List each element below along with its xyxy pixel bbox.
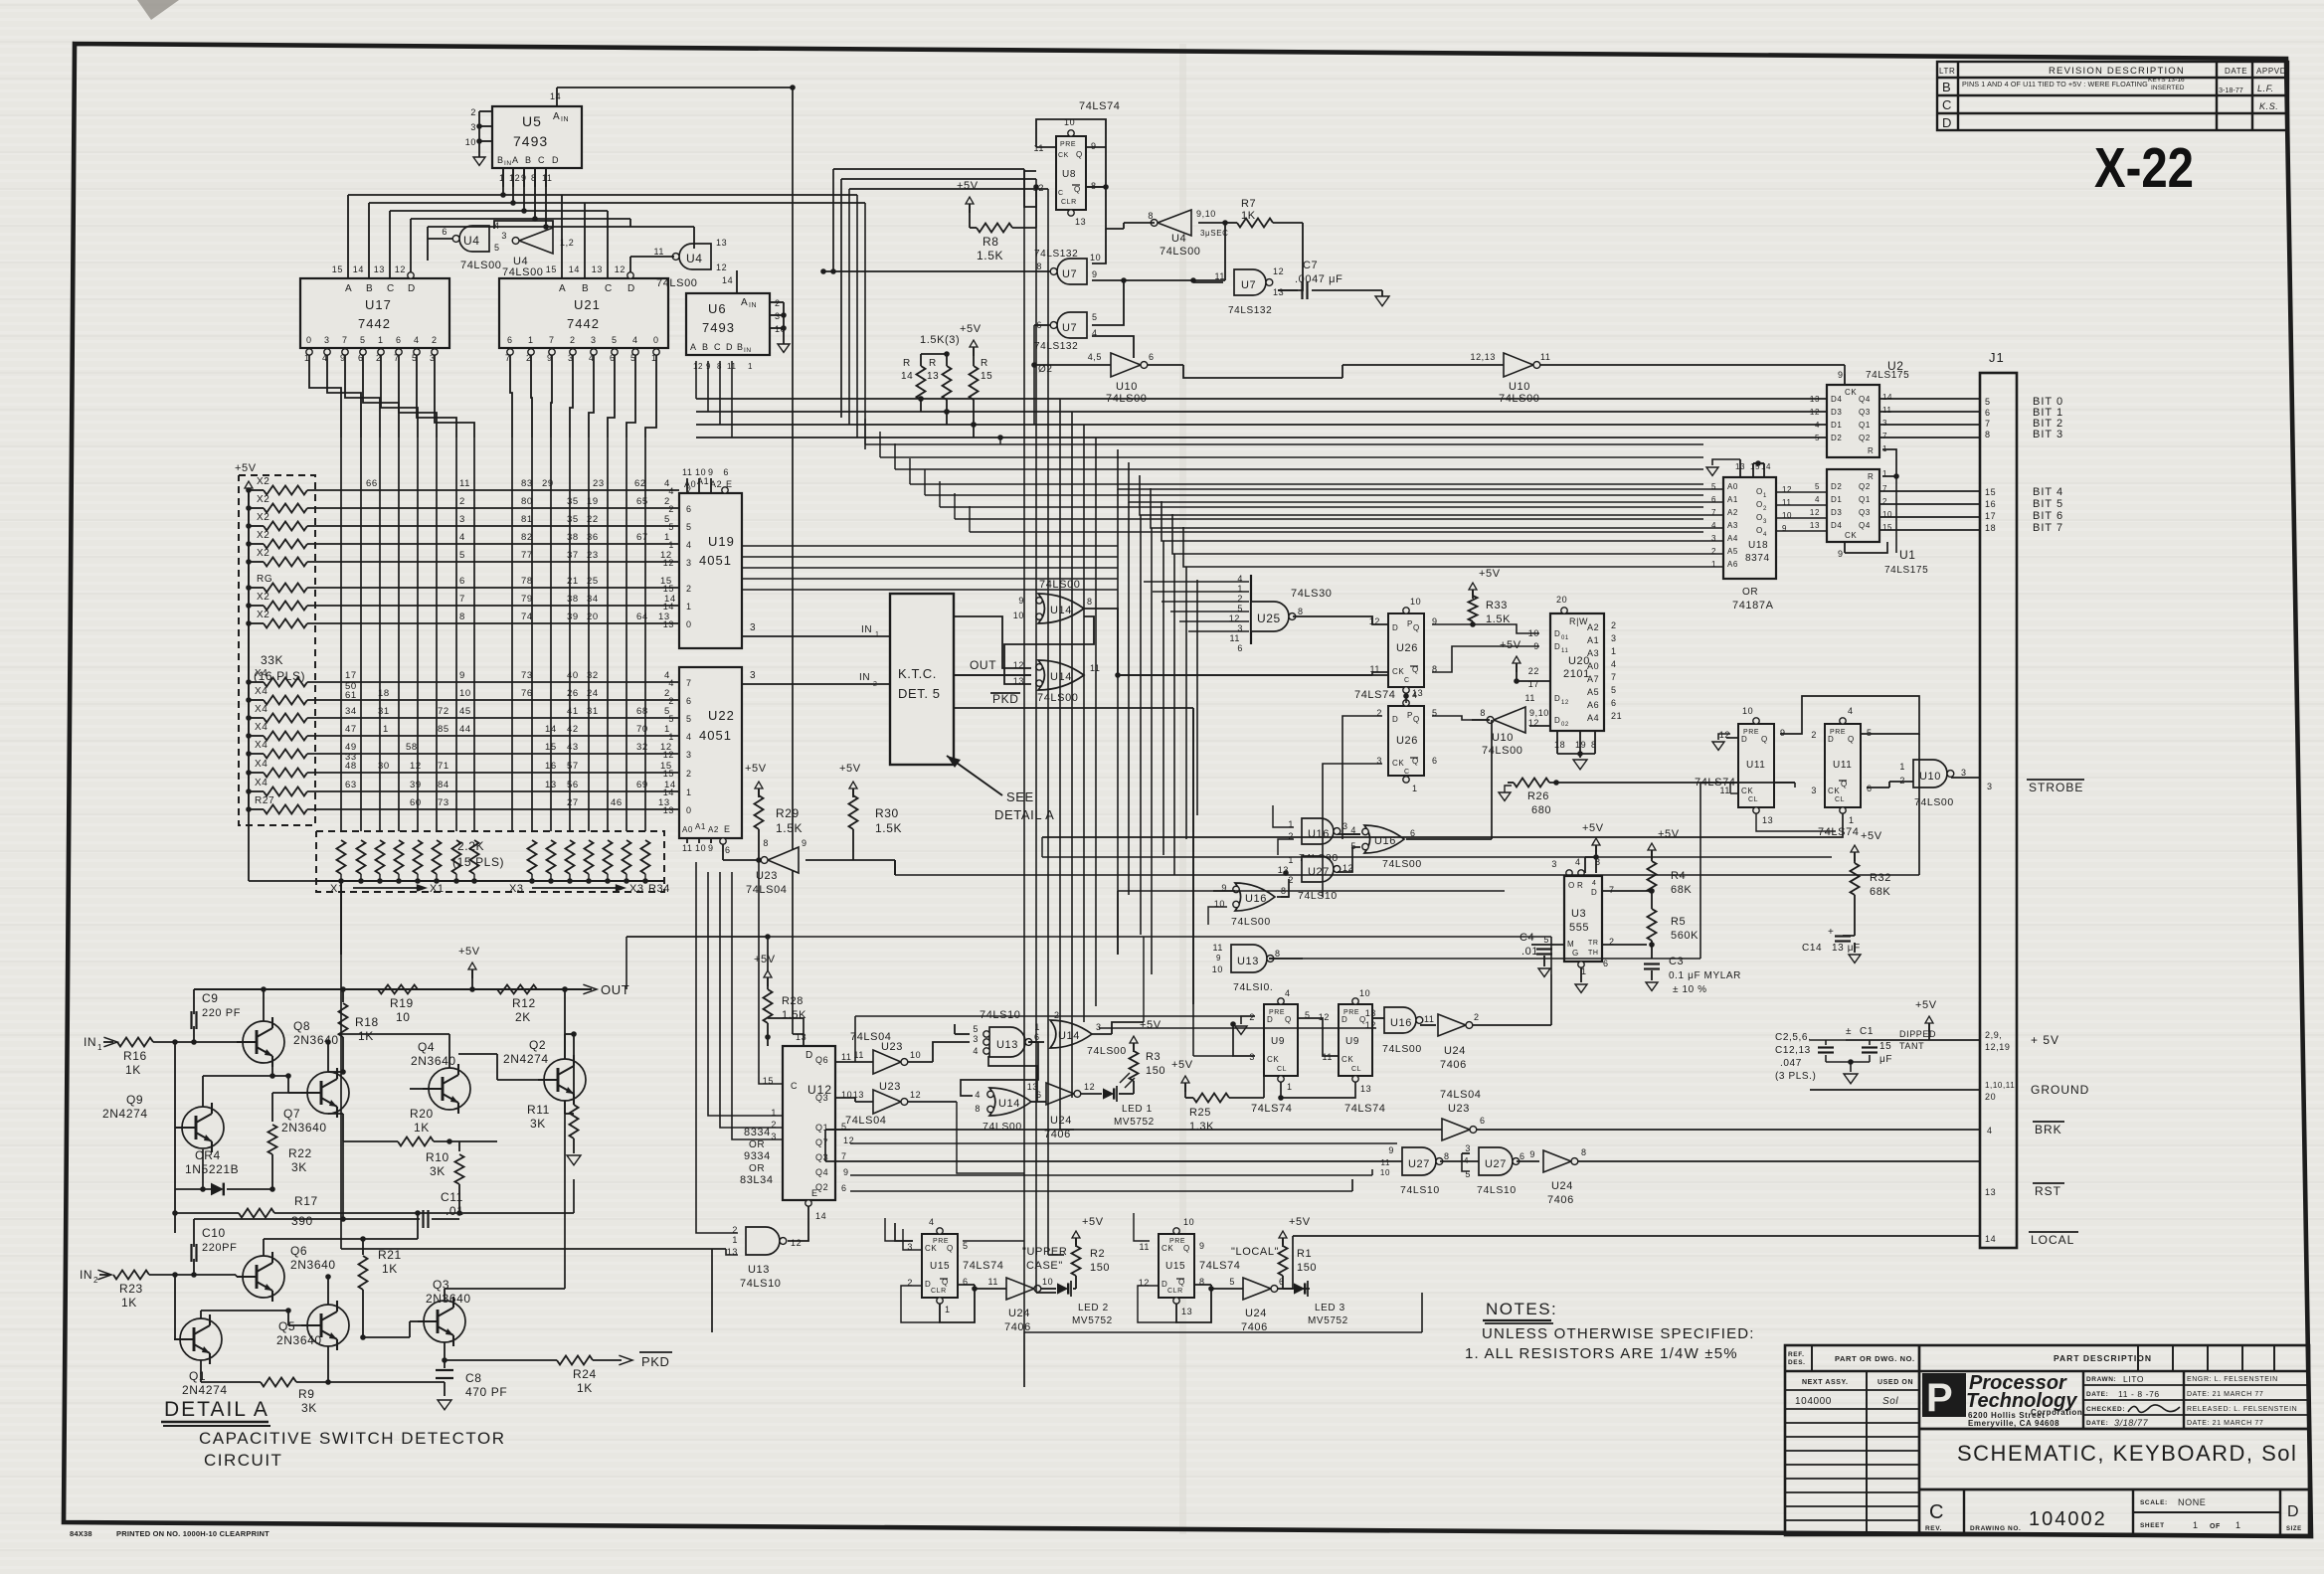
svg-text:3: 3 <box>1811 786 1817 795</box>
svg-text:A6: A6 <box>1727 560 1738 569</box>
svg-text:11: 11 <box>1882 406 1892 415</box>
svg-text:150: 150 <box>1297 1262 1317 1274</box>
svg-text:74LS00: 74LS00 <box>1382 1043 1422 1055</box>
svg-text:15: 15 <box>545 742 557 753</box>
wire Q2 emitter to R11 <box>565 1101 574 1114</box>
svg-text:DRAWING NO.: DRAWING NO. <box>1970 1525 2021 1532</box>
svg-text:22: 22 <box>1528 666 1539 676</box>
svg-text:74LS175: 74LS175 <box>1866 370 1909 381</box>
svg-text:D1: D1 <box>1831 421 1842 430</box>
svg-text:13: 13 <box>796 1032 806 1042</box>
wire U13c net <box>1269 783 1795 959</box>
svg-text:U24: U24 <box>1444 1045 1466 1057</box>
svg-text:35: 35 <box>567 514 579 525</box>
svg-text:62: 62 <box>634 478 646 489</box>
svg-text:14: 14 <box>815 1211 826 1221</box>
svg-text:DET. 5: DET. 5 <box>898 686 941 701</box>
wire U9 U16 feed lines <box>855 1016 1376 1241</box>
svg-text:1: 1 <box>97 1043 102 1052</box>
svg-text:9: 9 <box>708 467 714 477</box>
transistor Q6 2N3640 <box>236 1239 418 1302</box>
svg-text:2: 2 <box>93 1276 98 1285</box>
svg-text:3K: 3K <box>430 1164 446 1178</box>
svg-text:Q2: Q2 <box>529 1038 546 1052</box>
svg-text:IN: IN <box>861 624 872 635</box>
svg-text:+5V: +5V <box>745 763 767 775</box>
svg-text:4: 4 <box>686 732 692 742</box>
svg-text:6: 6 <box>1149 352 1155 362</box>
label 74LS74 <box>1079 100 1121 112</box>
ground <box>1706 467 1718 475</box>
svg-text:Q1: Q1 <box>189 1369 206 1383</box>
svg-text:X3: X3 <box>629 883 644 895</box>
svg-text:Q1: Q1 <box>1859 421 1871 430</box>
svg-text:13: 13 <box>545 780 557 790</box>
flipflop U15b 74LS74 <box>1139 1217 1241 1316</box>
resistor RG row6 <box>249 574 679 593</box>
resistor R10 3K <box>418 1141 574 1216</box>
svg-text:4: 4 <box>1575 857 1581 867</box>
svg-text:13: 13 <box>663 619 674 629</box>
svg-text:3: 3 <box>1465 1143 1471 1153</box>
svg-text:10: 10 <box>1090 253 1101 262</box>
svg-text:B: B <box>525 155 532 165</box>
svg-text:5: 5 <box>360 335 366 345</box>
svg-text:3: 3 <box>459 514 465 525</box>
svg-text:R|W: R|W <box>1569 616 1588 626</box>
svg-text:B: B <box>497 155 504 165</box>
svg-text:7406: 7406 <box>1547 1194 1574 1206</box>
svg-text:4: 4 <box>1285 988 1291 998</box>
svg-text:67: 67 <box>636 532 648 543</box>
svg-text:12: 12 <box>1561 700 1569 706</box>
svg-text:69: 69 <box>636 780 648 790</box>
svg-text:16: 16 <box>1985 499 1996 509</box>
svg-text:9,10: 9,10 <box>1196 209 1216 219</box>
resistor X4 row13 <box>249 740 679 759</box>
svg-text:17: 17 <box>345 670 357 681</box>
svg-text:02: 02 <box>1561 722 1569 728</box>
resistor R3 150 <box>1130 1019 1166 1094</box>
svg-text:73: 73 <box>438 797 449 808</box>
svg-text:4: 4 <box>686 540 692 550</box>
svg-text:24: 24 <box>587 688 599 699</box>
svg-text:33K: 33K <box>261 653 283 667</box>
svg-text:74LS74: 74LS74 <box>1354 689 1396 701</box>
svg-text:D3: D3 <box>1831 508 1842 517</box>
svg-text:9: 9 <box>1091 141 1097 151</box>
svg-text:U10: U10 <box>1509 381 1530 393</box>
svg-text:R: R <box>1868 472 1874 481</box>
svg-text:14: 14 <box>722 275 733 285</box>
svg-text:10: 10 <box>695 843 706 853</box>
svg-text:D: D <box>1341 1015 1347 1024</box>
svg-text:D2: D2 <box>1831 482 1842 491</box>
svg-text:C11: C11 <box>441 1190 463 1204</box>
svg-text:5: 5 <box>1229 1277 1235 1287</box>
corner smudge <box>137 0 179 20</box>
svg-text:BIT 5: BIT 5 <box>2033 498 2063 510</box>
svg-text:SEE: SEE <box>1006 789 1034 804</box>
svg-text:BIT 4: BIT 4 <box>2033 486 2063 498</box>
capacitor C7 .0047uF <box>1278 260 1382 299</box>
resistor R11 3K <box>527 1031 579 1153</box>
svg-text:+5V: +5V <box>957 180 979 192</box>
svg-text:DRAWN:: DRAWN: <box>2086 1376 2116 1383</box>
svg-text:2: 2 <box>1811 730 1817 740</box>
svg-text:10: 10 <box>1380 1168 1390 1177</box>
svg-text:12: 12 <box>615 264 626 274</box>
svg-text:555: 555 <box>1569 922 1589 934</box>
svg-text:X1: X1 <box>330 883 345 895</box>
svg-text:68K: 68K <box>1671 884 1692 896</box>
block KTC DET.5 <box>890 594 954 765</box>
svg-text:U9: U9 <box>1271 1036 1285 1047</box>
svg-text:220 PF: 220 PF <box>202 1007 241 1019</box>
svg-text:74LS175: 74LS175 <box>1884 565 1928 576</box>
svg-text:2.2K: 2.2K <box>457 839 484 853</box>
svg-text:J1: J1 <box>1989 350 2005 365</box>
svg-text:BIT 6: BIT 6 <box>2033 510 2063 522</box>
svg-text:C: C <box>1058 190 1064 197</box>
svg-text:2N4274: 2N4274 <box>503 1052 549 1066</box>
svg-text:μF: μF <box>1879 1054 1892 1065</box>
svg-text:4: 4 <box>1987 1126 1993 1136</box>
svg-text:3: 3 <box>750 670 756 681</box>
svg-text:12: 12 <box>910 1090 921 1100</box>
svg-text:D4: D4 <box>1831 395 1842 404</box>
svg-text:U10: U10 <box>1116 381 1138 393</box>
svg-text:2N3640: 2N3640 <box>293 1033 339 1047</box>
svg-text:.01: .01 <box>1521 946 1538 958</box>
svg-text:83L34: 83L34 <box>740 1174 774 1186</box>
svg-text:X3: X3 <box>509 883 524 895</box>
svg-text:1: 1 <box>875 631 880 638</box>
svg-text:6: 6 <box>442 227 447 237</box>
resistor R9 3K <box>201 1346 445 1415</box>
svg-text:R33: R33 <box>1486 600 1508 612</box>
svg-text:CLR: CLR <box>1061 199 1077 206</box>
svg-text:A2: A2 <box>1727 508 1738 517</box>
transistor Q9 2N4274 <box>102 1063 275 1152</box>
svg-text:12,19: 12,19 <box>1985 1042 2011 1052</box>
svg-text:23: 23 <box>587 550 599 561</box>
svg-text:6: 6 <box>1611 698 1617 708</box>
svg-text:12: 12 <box>791 1238 802 1248</box>
svg-text:U24: U24 <box>1050 1115 1072 1127</box>
svg-text:38: 38 <box>567 594 579 605</box>
svg-text:1K: 1K <box>358 1029 374 1043</box>
svg-text:1K: 1K <box>125 1063 141 1077</box>
svg-text:12: 12 <box>693 362 703 371</box>
nor U16c 74LS00 <box>1214 879 1289 928</box>
svg-text:2N3640: 2N3640 <box>276 1333 322 1347</box>
svg-text:RG: RG <box>257 574 272 585</box>
svg-text:R27: R27 <box>255 795 274 806</box>
svg-text:27: 27 <box>567 797 579 808</box>
svg-text:72: 72 <box>438 706 449 717</box>
svg-text:12: 12 <box>663 558 674 568</box>
svg-text:8: 8 <box>1480 708 1486 718</box>
svg-text:A1: A1 <box>695 822 706 831</box>
sheet number X-22 <box>2094 136 2194 200</box>
nand U27c 74LS10 <box>1462 1143 1539 1196</box>
svg-text:CK: CK <box>1162 1244 1173 1253</box>
svg-text:U11: U11 <box>1833 760 1852 771</box>
svg-text:32: 32 <box>636 742 648 753</box>
svg-text:7: 7 <box>686 678 692 688</box>
svg-text:74: 74 <box>521 612 533 622</box>
ground <box>1375 290 1389 306</box>
capacitor C9 220PF <box>191 989 241 1045</box>
svg-text:L.F.: L.F. <box>2257 84 2274 93</box>
svg-text:6: 6 <box>1480 1116 1486 1126</box>
svg-text:74LS00: 74LS00 <box>1914 796 1954 808</box>
svg-text:NEXT ASSY.: NEXT ASSY. <box>1802 1379 1849 1386</box>
ground <box>1712 734 1730 750</box>
wire J1 bit lines <box>1879 399 1980 530</box>
inverter U10b 74LS00 <box>1342 352 1845 405</box>
svg-text:D: D <box>408 283 416 294</box>
svg-text:9: 9 <box>843 1167 849 1177</box>
svg-text:REVISION DESCRIPTION: REVISION DESCRIPTION <box>2049 66 2185 77</box>
nor U14d 74LS00 <box>975 1088 1046 1133</box>
resistor R27 row16 <box>249 795 679 814</box>
svg-text:CIRCUIT: CIRCUIT <box>204 1451 282 1470</box>
svg-text:9: 9 <box>708 843 714 853</box>
svg-text:3: 3 <box>775 311 781 321</box>
svg-text:PRE: PRE <box>1060 141 1076 148</box>
inverter U24c 7406 <box>1194 1277 1293 1333</box>
svg-text:4: 4 <box>1815 495 1820 504</box>
inverter U4d 74LS00 <box>1124 209 1229 258</box>
nand U4a 74LS00 <box>428 221 502 271</box>
nand U7b 74LS132 <box>1034 223 1225 358</box>
svg-text:Q3: Q3 <box>1859 508 1871 517</box>
matrix +5V rail <box>246 487 252 812</box>
nand U13c 74LS10 <box>1212 943 1303 993</box>
svg-text:1: 1 <box>686 602 692 612</box>
svg-text:1.5K(3): 1.5K(3) <box>920 334 960 346</box>
svg-text:11 - 8 -76: 11 - 8 -76 <box>2118 1389 2160 1399</box>
svg-text:C1: C1 <box>1860 1026 1874 1037</box>
svg-text:6: 6 <box>686 504 692 514</box>
svg-text:1K: 1K <box>577 1381 593 1395</box>
svg-text:70: 70 <box>636 724 648 735</box>
svg-text:REF.: REF. <box>1788 1351 1805 1358</box>
svg-text:1: 1 <box>1899 762 1905 772</box>
svg-text:12: 12 <box>509 173 520 183</box>
svg-text:6: 6 <box>1237 643 1243 653</box>
wire U25 input feed <box>1144 582 1249 631</box>
svg-text:6: 6 <box>1279 1277 1285 1287</box>
resistor X2 row2 <box>249 494 679 513</box>
svg-text:22: 22 <box>587 514 599 525</box>
svg-text:Q6: Q6 <box>290 1244 307 1258</box>
capacitor C4 .01 <box>1520 932 1564 976</box>
svg-text:6: 6 <box>507 335 513 345</box>
svg-text:21: 21 <box>1611 711 1622 721</box>
svg-text:D: D <box>1554 629 1560 638</box>
svg-text:74LS00: 74LS00 <box>1231 916 1271 928</box>
svg-text:Q4: Q4 <box>1859 395 1871 404</box>
svg-text:P: P <box>1926 1376 1953 1420</box>
svg-text:11: 11 <box>1322 1052 1333 1062</box>
svg-text:3: 3 <box>1763 519 1767 525</box>
svg-text:NOTES:: NOTES: <box>1486 1300 1557 1318</box>
svg-text:D: D <box>805 1050 813 1061</box>
svg-text:13 μF: 13 μF <box>1832 943 1861 954</box>
svg-text:CHECKED:: CHECKED: <box>2086 1406 2125 1413</box>
svg-text:5: 5 <box>612 335 618 345</box>
inverter U10a 74LS00 <box>1031 352 1342 405</box>
capacitor C11 .01 <box>340 1141 463 1228</box>
svg-text:1: 1 <box>1763 493 1767 499</box>
svg-text:9: 9 <box>1529 1149 1535 1159</box>
svg-text:U26: U26 <box>1396 642 1418 654</box>
svg-text:D: D <box>627 283 635 294</box>
svg-text:IN: IN <box>84 1035 96 1049</box>
svg-text:A4: A4 <box>1727 534 1738 543</box>
svg-text:220PF: 220PF <box>202 1242 237 1254</box>
svg-text:REV.: REV. <box>1925 1525 1942 1532</box>
svg-text:DETAIL A: DETAIL A <box>164 1398 269 1421</box>
svg-text:5: 5 <box>494 243 500 253</box>
wire U13-U14 cross <box>961 1042 1038 1102</box>
svg-text:64: 64 <box>636 612 648 622</box>
counter U6 7493 <box>686 270 787 371</box>
inverter U24b 7406 <box>958 1277 1056 1333</box>
svg-text:IN: IN <box>744 347 752 354</box>
svg-text:8: 8 <box>1985 430 1991 439</box>
svg-text:47: 47 <box>345 724 357 735</box>
svg-text:2N3640: 2N3640 <box>290 1258 336 1272</box>
svg-text:U21: U21 <box>574 297 601 312</box>
svg-text:74LS10: 74LS10 <box>1477 1184 1517 1196</box>
svg-text:5: 5 <box>1092 312 1098 322</box>
transistor Q3 2N3640 <box>360 1101 565 1346</box>
svg-text:Q7: Q7 <box>283 1107 300 1121</box>
svg-text:4: 4 <box>929 1217 935 1227</box>
svg-text:+5V: +5V <box>1658 828 1680 840</box>
svg-text:CK: CK <box>1392 759 1404 768</box>
svg-text:12: 12 <box>663 750 674 760</box>
svg-text:74LS10: 74LS10 <box>1298 890 1338 902</box>
svg-text:C: C <box>714 342 721 352</box>
svg-text:R18: R18 <box>355 1015 379 1029</box>
svg-text:B: B <box>702 342 709 352</box>
nand U25 74LS30 <box>1229 574 1388 653</box>
flipflop U9a 74LS74 <box>1249 988 1310 1115</box>
svg-text:A: A <box>741 297 748 308</box>
svg-text:E: E <box>724 824 731 834</box>
svg-text:NONE: NONE <box>2178 1497 2206 1507</box>
resistor R28 1.5K <box>754 954 806 1046</box>
resistor R7 1K <box>1225 198 1303 290</box>
svg-text:U27: U27 <box>1308 866 1330 878</box>
svg-text:DATE: 21 MARCH 77: DATE: 21 MARCH 77 <box>2187 1420 2263 1427</box>
svg-text:BIT 3: BIT 3 <box>2033 429 2063 440</box>
resistor X4 row9 <box>249 668 679 687</box>
svg-text:7: 7 <box>686 486 692 496</box>
svg-text:4: 4 <box>973 1046 979 1056</box>
nand U16a 74LS00 <box>1288 818 1360 864</box>
svg-text:IN: IN <box>561 116 569 123</box>
svg-text:KEYS 13-16: KEYS 13-16 <box>2148 77 2185 84</box>
label PKD arrow <box>639 1352 672 1369</box>
svg-text:1: 1 <box>686 787 692 797</box>
svg-text:OR: OR <box>749 1139 765 1150</box>
svg-text:11: 11 <box>1524 693 1535 703</box>
svg-text:C: C <box>605 283 613 294</box>
svg-text:B: B <box>1942 80 1951 94</box>
resistor X2 row4 <box>249 530 679 549</box>
decoder U17 7442 <box>300 241 449 363</box>
svg-text:3K: 3K <box>291 1160 307 1174</box>
svg-text:6: 6 <box>725 845 731 855</box>
label IN1 <box>84 1035 117 1052</box>
svg-text:7: 7 <box>1611 672 1617 682</box>
svg-text:SHEET: SHEET <box>2140 1522 2165 1529</box>
svg-text:6: 6 <box>723 467 729 477</box>
svg-text:X2: X2 <box>257 610 269 620</box>
svg-text:11: 11 <box>841 1052 852 1062</box>
svg-text:OUT: OUT <box>970 658 996 672</box>
svg-text:A2: A2 <box>1587 622 1599 632</box>
svg-text:LITO: LITO <box>2123 1374 2144 1384</box>
svg-text:76: 76 <box>521 688 533 699</box>
svg-text:7: 7 <box>1985 419 1991 429</box>
svg-text:71: 71 <box>438 761 449 772</box>
nand U27a 74LS10 <box>1278 847 1360 902</box>
svg-text:X4: X4 <box>255 759 268 770</box>
svg-text:9: 9 <box>1199 1241 1205 1251</box>
inverter U23d 74LS04 BRK <box>825 1089 1979 1140</box>
svg-text:74LS10: 74LS10 <box>740 1278 782 1290</box>
svg-text:R9: R9 <box>298 1387 315 1401</box>
svg-text:R28: R28 <box>782 995 804 1007</box>
svg-text:D4: D4 <box>1831 521 1842 530</box>
matrix vertical wires <box>341 437 645 831</box>
svg-text:A5: A5 <box>1587 687 1599 697</box>
svg-text:48: 48 <box>345 761 357 772</box>
svg-text:U14: U14 <box>1050 671 1072 683</box>
svg-text:3: 3 <box>591 335 597 345</box>
resistor R12 2K <box>497 985 537 1025</box>
svg-text:2101: 2101 <box>1563 668 1590 680</box>
svg-text:+: + <box>1828 927 1834 938</box>
latch U12 8334 <box>763 1032 854 1221</box>
nand U7c 74LS132 <box>1190 266 1284 316</box>
svg-text:X4: X4 <box>255 686 268 697</box>
nor U14a 74LS00 <box>1013 579 1093 623</box>
svg-text:LTR: LTR <box>1939 67 1955 76</box>
svg-text:1K: 1K <box>1241 210 1256 222</box>
svg-text:2: 2 <box>1474 1012 1480 1022</box>
svg-text:10: 10 <box>910 1050 921 1060</box>
svg-text:D: D <box>1392 623 1398 632</box>
svg-text:13: 13 <box>1762 815 1773 825</box>
wire top bus verticals <box>830 169 841 418</box>
label 33K (16 PLS) <box>254 653 305 683</box>
svg-text:IN: IN <box>859 672 870 683</box>
svg-text:X4: X4 <box>255 722 268 733</box>
svg-text:41: 41 <box>567 706 579 717</box>
flipflop U15a 74LS74 <box>907 1217 1003 1314</box>
wire bus mid horizontals 2 <box>865 419 1703 532</box>
svg-text:C: C <box>1942 97 1952 112</box>
wire U8 feedback <box>1024 119 1124 229</box>
